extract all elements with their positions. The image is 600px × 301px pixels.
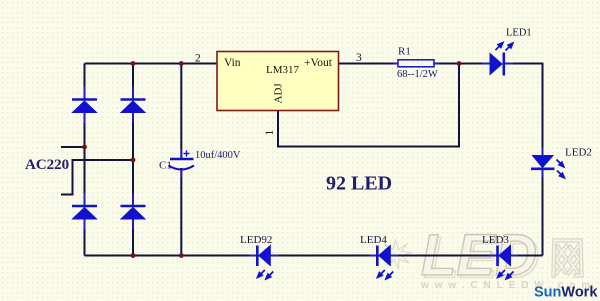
svg-text:LED2: LED2	[565, 147, 592, 159]
svg-text:2: 2	[195, 53, 201, 65]
op-amp U1 LM317 box	[217, 52, 339, 111]
LED4 pins	[370, 255, 399, 257]
LED4	[377, 246, 394, 280]
LED3 pins	[490, 255, 519, 257]
watermark LED网	[381, 223, 597, 291]
LED92 pins	[250, 255, 279, 257]
wire LED2 down to bottom rail	[542, 169, 544, 256]
watermark sparkle	[381, 240, 412, 269]
svg-text:92 LED: 92 LED	[326, 173, 392, 195]
diode D4 pins	[132, 193, 134, 230]
capacitor C1 pins	[180, 150, 182, 178]
wire AC stub bottom step	[61, 160, 133, 195]
svg-text:3: 3	[356, 52, 362, 64]
LED2 pins	[542, 148, 544, 178]
node top rail / right column	[131, 61, 136, 66]
wire left column lower	[84, 220, 86, 256]
wire pin3 to R1	[339, 63, 399, 65]
resistor R1	[398, 60, 434, 67]
wire top rail	[85, 63, 218, 65]
wire left column middle	[84, 113, 86, 207]
wire right column middle	[132, 113, 134, 207]
node AC bottom / right column	[131, 158, 136, 163]
node bottom rail / right column	[131, 253, 136, 258]
node R1 / LED1 / ADJ	[457, 61, 462, 66]
svg-text:LED4: LED4	[360, 234, 387, 246]
node AC top / left column	[82, 145, 87, 150]
svg-text:1: 1	[264, 130, 276, 136]
diode D3 pins	[84, 193, 86, 230]
wire left column upper	[84, 64, 86, 100]
wire bottom rail	[85, 255, 543, 257]
node top rail / C1	[179, 61, 184, 66]
watermark 网 glyph	[554, 241, 582, 276]
svg-text:10uf/400V: 10uf/400V	[195, 150, 241, 161]
node bottom rail / C1	[179, 253, 184, 258]
LED1	[490, 42, 514, 76]
svg-text:LED92: LED92	[240, 234, 272, 246]
capacitor C1	[169, 151, 195, 170]
svg-text:ADJ: ADJ	[273, 83, 285, 104]
svg-text:+Vout: +Vout	[304, 57, 333, 69]
diode D2 pins	[132, 87, 134, 124]
svg-text:C1: C1	[159, 160, 172, 172]
svg-text:LM317: LM317	[266, 64, 300, 76]
diode D1 pins	[84, 87, 86, 124]
wire right column upper	[132, 64, 134, 100]
SunWork logo	[534, 285, 598, 301]
LED2	[531, 156, 565, 179]
wire C1 vertical upper	[180, 64, 182, 159]
svg-text:SunWork: SunWork	[534, 285, 598, 301]
wire C1 vertical lower	[180, 168, 182, 256]
LED1 pins	[482, 63, 513, 65]
svg-text:LED1: LED1	[506, 28, 532, 39]
LED92	[257, 246, 274, 280]
component pin stubs (blue)	[85, 64, 543, 256]
svg-text:LED3: LED3	[482, 234, 509, 246]
wire ADJ pin feedback	[278, 64, 459, 147]
svg-text:AC220: AC220	[25, 157, 69, 173]
diode D1 top-left	[72, 100, 97, 113]
svg-text:68--1/2W: 68--1/2W	[397, 69, 438, 80]
wire LED1 to right corner, down	[505, 64, 543, 156]
wire right column lower	[132, 220, 134, 256]
diode D4 bottom-right	[121, 206, 146, 219]
LED3	[497, 246, 514, 280]
diode D2 top-right	[121, 100, 146, 113]
diode D3 bottom-left	[72, 206, 97, 219]
resistor R1 pins	[394, 63, 439, 65]
svg-text:Vin: Vin	[224, 57, 241, 69]
wire AC stub top	[61, 146, 85, 148]
svg-text:R1: R1	[398, 46, 411, 58]
wire R1 to LED1	[434, 63, 490, 65]
